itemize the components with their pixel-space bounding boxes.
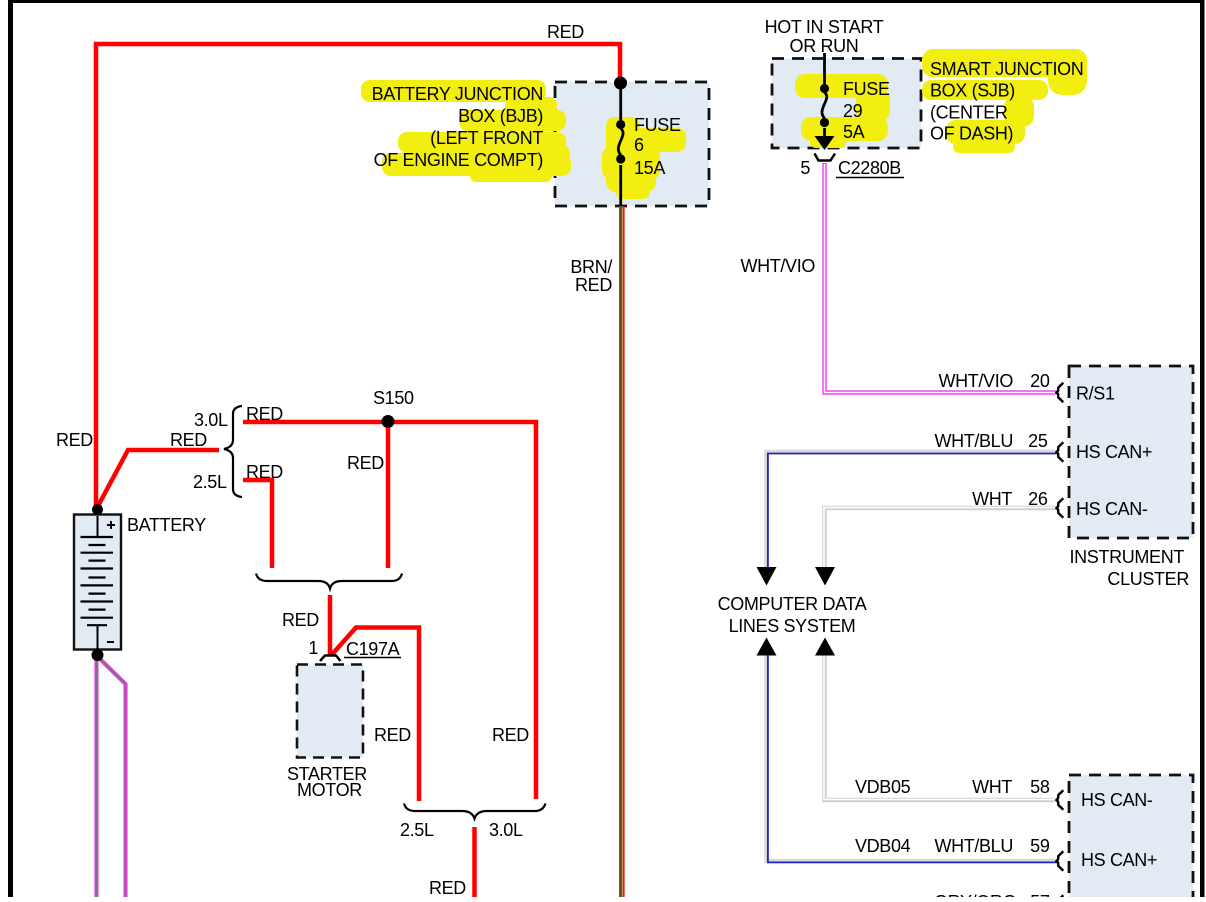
brace merge lower (to next sheet) — [404, 804, 546, 819]
fuse F29 terminal dots — [820, 84, 829, 93]
svg-text:COMPUTER DATA: COMPUTER DATA — [718, 594, 867, 614]
svg-text:2.5L: 2.5L — [400, 820, 434, 840]
wire RED branch from connector to lower brace — [332, 628, 420, 802]
svg-text:BATTERY: BATTERY — [127, 515, 206, 535]
arrows into computer data lines system — [757, 567, 777, 586]
connector C197A symbol — [320, 656, 341, 662]
svg-text:BATTERY JUNCTION: BATTERY JUNCTION — [372, 84, 543, 104]
instrument cluster box 2 (bottom) — [1069, 775, 1193, 902]
svg-text:WHT/BLU: WHT/BLU — [934, 431, 1013, 451]
wire RED battery positive to BJB fuse (up and across top) — [96, 44, 620, 506]
svg-text:OF DASH): OF DASH) — [930, 124, 1013, 144]
svg-text:RED: RED — [170, 430, 207, 450]
svg-text:RED: RED — [575, 275, 612, 295]
svg-text:RED: RED — [492, 725, 529, 745]
wire BRN/RED from BJB fuse down — [621, 206, 624, 897]
wire battery negative left — [94, 659, 98, 897]
wire RED brace output to starter connector — [328, 595, 333, 655]
svg-text:RED: RED — [246, 462, 283, 482]
svg-text:BOX (SJB): BOX (SJB) — [930, 81, 1015, 101]
svg-text:WHT: WHT — [972, 777, 1012, 797]
svg-text:OF ENGINE COMPT): OF ENGINE COMPT) — [374, 150, 543, 170]
pin bracket 57 partial at page bottom — [1058, 895, 1063, 902]
wire RED S150 down to brace — [386, 424, 391, 568]
wire RED battery feed to engine branches — [98, 450, 220, 507]
highlighter marks inside SJB box over fuse 29 — [795, 74, 890, 148]
pin bracket 20 — [1057, 383, 1064, 402]
svg-text:57: 57 — [1030, 892, 1050, 897]
fuse F6 15A in BJB — [618, 84, 623, 206]
svg-text:5A: 5A — [843, 122, 865, 142]
svg-text:MOTOR: MOTOR — [297, 780, 362, 800]
svg-text:BRN/: BRN/ — [570, 257, 612, 277]
svg-text:59: 59 — [1030, 836, 1050, 856]
wire WHT/BLU cluster pin 25 to data-lines arrow — [767, 452, 1058, 568]
svg-text:25: 25 — [1028, 431, 1048, 451]
svg-text:CLUSTER: CLUSTER — [1107, 569, 1189, 589]
svg-text:20: 20 — [1030, 371, 1050, 391]
node battery negative dot — [92, 649, 104, 661]
wire WHT/BLU VDB04 pin 59 — [767, 655, 1058, 862]
svg-text:RED: RED — [282, 610, 319, 630]
svg-text:(CENTER: (CENTER — [930, 103, 1008, 123]
wire WHT cluster pin 26 to data-lines arrow — [824, 508, 1057, 569]
svg-text:HS CAN-: HS CAN- — [1081, 790, 1153, 810]
svg-text:R/S1: R/S1 — [1076, 384, 1115, 404]
svg-text:GRY/ORG: GRY/ORG — [934, 892, 1016, 897]
svg-text:SMART JUNCTION: SMART JUNCTION — [930, 59, 1083, 79]
connector C2280B symbol — [815, 154, 836, 161]
brace engine-size selector (3.0L / 2.5L) — [224, 406, 242, 497]
svg-text:6: 6 — [634, 135, 644, 155]
wire RED output of lower brace — [472, 827, 477, 897]
highlighter marks over BJB label text — [361, 80, 571, 182]
svg-text:FUSE: FUSE — [843, 79, 890, 99]
svg-text:WHT/BLU: WHT/BLU — [934, 836, 1013, 856]
svg-text:C2280B: C2280B — [838, 158, 901, 178]
highlighter marks inside BJB box over fuse 6 — [602, 117, 686, 199]
node S150 junction dot — [382, 415, 395, 428]
svg-text:WHT: WHT — [972, 489, 1012, 509]
svg-text:26: 26 — [1028, 489, 1048, 509]
wire RED 3.0L branch from S150 — [243, 422, 536, 799]
svg-text:HS CAN+: HS CAN+ — [1076, 442, 1152, 462]
svg-text:VDB04: VDB04 — [855, 836, 911, 856]
pin bracket 25 — [1057, 442, 1064, 461]
svg-text:(LEFT FRONT: (LEFT FRONT — [430, 128, 543, 148]
svg-text:INSTRUMENT: INSTRUMENT — [1070, 547, 1185, 567]
svg-text:OR RUN: OR RUN — [790, 36, 859, 56]
svg-text:HS CAN-: HS CAN- — [1076, 499, 1148, 519]
pin bracket 26 — [1057, 498, 1064, 517]
svg-text:HS CAN+: HS CAN+ — [1081, 850, 1157, 870]
svg-text:3.0L: 3.0L — [194, 410, 228, 430]
battery symbol — [74, 515, 121, 650]
arrow out of SJB fuse — [815, 136, 835, 150]
svg-text:BOX (BJB): BOX (BJB) — [458, 106, 543, 126]
pin bracket 58 — [1057, 790, 1064, 809]
fuse F29 5A in SJB — [822, 53, 827, 137]
svg-text:C197A: C197A — [346, 639, 400, 659]
svg-text:HOT IN START: HOT IN START — [765, 17, 884, 37]
wire WHT/VIO from SJB C2280B to cluster pin 20 — [825, 163, 1058, 393]
battery junction box BJB — [555, 82, 709, 206]
svg-text:FUSE: FUSE — [634, 115, 681, 135]
svg-text:3.0L: 3.0L — [489, 820, 523, 840]
svg-text:VDB05: VDB05 — [855, 777, 911, 797]
svg-text:15A: 15A — [634, 158, 665, 178]
wire battery negative right — [99, 658, 126, 897]
pin bracket 59 — [1057, 851, 1064, 870]
highlighter marks over SJB label text — [922, 49, 1087, 153]
svg-text:WHT/VIO: WHT/VIO — [740, 256, 815, 276]
wire RED 2.5L branch — [243, 480, 272, 568]
svg-text:RED: RED — [56, 430, 93, 450]
starter motor box — [297, 665, 363, 758]
node battery positive dot — [92, 504, 103, 515]
svg-text:5: 5 — [800, 158, 810, 178]
svg-text:RED: RED — [347, 453, 384, 473]
svg-text:RED: RED — [547, 22, 584, 42]
brace merge upper (to starter) — [256, 574, 402, 589]
svg-text:RED: RED — [374, 725, 411, 745]
svg-text:RED: RED — [246, 404, 283, 424]
fuse F6 terminal dots — [616, 120, 625, 129]
svg-text:2.5L: 2.5L — [193, 472, 227, 492]
smart junction box SJB — [772, 59, 921, 149]
svg-text:S150: S150 — [373, 388, 414, 408]
svg-text:58: 58 — [1030, 777, 1050, 797]
node junction dot at BJB top — [614, 77, 627, 90]
wire WHT VDB05 pin 58 — [824, 655, 1057, 800]
instrument cluster box — [1069, 366, 1193, 538]
svg-text:LINES SYSTEM: LINES SYSTEM — [729, 616, 856, 636]
svg-text:1: 1 — [308, 638, 318, 658]
svg-text:29: 29 — [843, 101, 863, 121]
svg-text:RED: RED — [429, 878, 466, 897]
svg-text:WHT/VIO: WHT/VIO — [938, 371, 1013, 391]
